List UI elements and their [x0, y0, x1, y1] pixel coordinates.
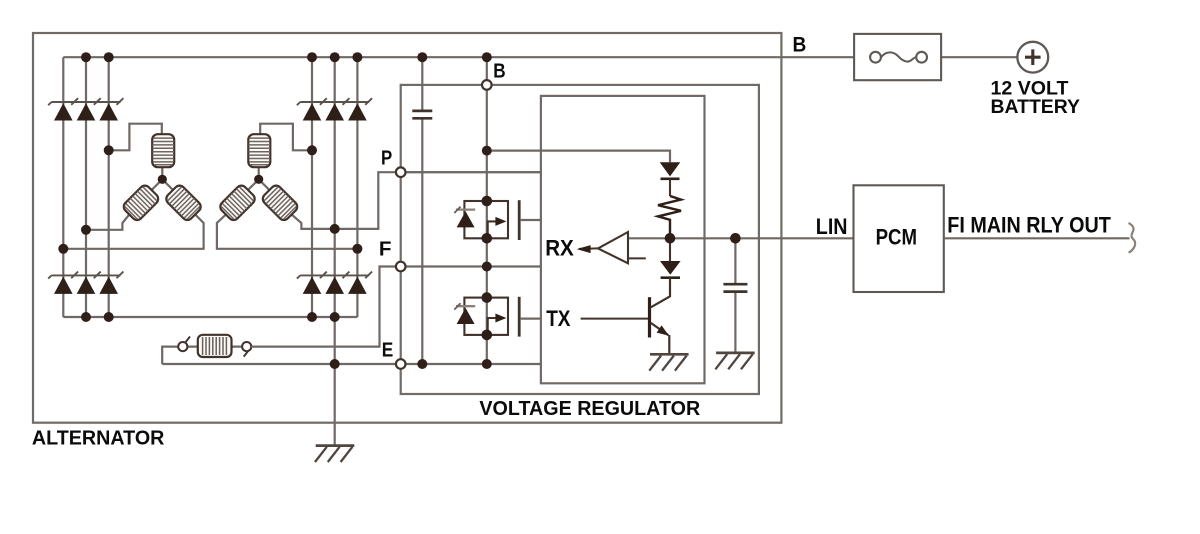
capacitor C2	[723, 284, 747, 291]
RX arrowhead	[577, 245, 591, 253]
wire: P line into IC	[401, 171, 541, 173]
RX buffer reference stub	[628, 257, 646, 259]
wire: field to F terminal	[251, 267, 541, 347]
svg-text:B: B	[493, 60, 505, 82]
node: B tap	[482, 146, 492, 156]
wire: stator Y2 right coil to P terminal	[292, 172, 541, 229]
fuse box	[854, 34, 941, 80]
node: C1 branch / B+ bus	[417, 52, 427, 62]
rotor field coil	[198, 335, 232, 357]
battery symbol	[1017, 42, 1048, 73]
node: Y1 neutral	[158, 175, 167, 184]
RX buffer triangle	[598, 232, 628, 263]
wire: E ground line	[162, 363, 541, 365]
resistor R1	[658, 196, 681, 238]
stator coil Y1 right	[164, 183, 203, 222]
node: Y2 top coil tap	[307, 145, 317, 155]
wire: phase 2 vertical	[85, 57, 87, 317]
diode D7 cathode bar	[661, 178, 680, 181]
wire: D7 to resistor	[669, 179, 671, 196]
wire: B vertical through regulator	[486, 57, 488, 364]
diode D7 top of divider	[660, 162, 681, 176]
ground: alternator case	[315, 446, 354, 462]
wire: fuse to battery	[941, 56, 1018, 58]
PCM box	[854, 185, 944, 292]
svg-text:VOLTAGE REGULATOR: VOLTAGE REGULATOR	[479, 398, 700, 420]
node: Y1 top coil tap	[104, 145, 114, 155]
wire: phase 4 vertical	[311, 57, 313, 317]
transistor Q3 emitter	[651, 323, 670, 354]
svg-text:ALTERNATOR: ALTERNATOR	[32, 428, 165, 450]
svg-text:BATTERY: BATTERY	[991, 97, 1081, 118]
node: Y1 left coil tap	[81, 225, 91, 235]
stator coil Y2 left	[218, 183, 257, 222]
wire: internal cap branch	[421, 57, 423, 364]
node: phase 5 / P line	[330, 224, 340, 234]
MOSFET Q2 low side	[454, 297, 519, 337]
wire: top B+ bus	[63, 56, 854, 58]
rectifier diodes lower left	[48, 272, 123, 294]
wire: slip ring link	[187, 346, 242, 348]
fuse terminal left	[870, 52, 881, 63]
diode D8 cathode bar	[661, 276, 680, 279]
alternator outer box	[33, 33, 781, 423]
wire: RX output	[579, 247, 598, 250]
wire: TX to transistor base	[581, 318, 650, 320]
node: phase 4 / ground bus	[307, 312, 317, 322]
svg-text:B: B	[793, 33, 807, 56]
node: phase 3 / B+ bus	[104, 52, 114, 62]
wire: FI MAIN RLY OUT	[944, 237, 1130, 239]
slip ring left	[178, 342, 187, 351]
stator coil Y2 top	[248, 134, 270, 167]
rectifier diodes upper right	[297, 98, 372, 120]
fuse element	[881, 52, 916, 61]
wire: rotor field loop left end	[162, 347, 189, 364]
wire: Q2 gate	[520, 318, 541, 320]
wire: stator Y1 top coil to phase 3	[109, 124, 162, 151]
terminal B	[482, 80, 492, 90]
wire: stator Y2 neutral link	[247, 167, 270, 191]
node: Y2 neutral	[254, 175, 263, 184]
terminal F	[396, 262, 406, 272]
terminal P	[396, 167, 406, 177]
wire: stator Y1 right coil to phase 1	[63, 215, 203, 249]
rectifier diodes lower right	[297, 272, 372, 294]
brush tick left	[185, 337, 190, 343]
node: phase 6 / B+ bus	[352, 52, 362, 62]
svg-text:LIN: LIN	[816, 214, 848, 239]
node: ground lead / E line	[330, 359, 340, 369]
node: Q2 source bottom	[482, 330, 493, 341]
node: F line / MOSFET midpoint	[482, 262, 492, 272]
node: phase 3 / ground bus	[104, 312, 114, 322]
transistor Q3 collector	[651, 278, 670, 308]
wire: LIN node horizontal	[628, 237, 854, 239]
regulator IC inner box	[541, 96, 705, 383]
wire: stator Y1 neutral link	[151, 167, 174, 191]
wire: Q1 gate	[520, 219, 541, 221]
wire: LIN cap branch	[734, 238, 736, 353]
node: LIN / C2 branch	[730, 233, 741, 244]
voltage regulator box	[401, 85, 759, 394]
transistor Q3 base bar	[648, 297, 651, 337]
wire: stator Y1 left coil to phase 2	[86, 215, 129, 230]
node: C1 branch / E line	[417, 359, 427, 369]
battery plus sign	[1025, 49, 1041, 65]
slip ring right	[242, 342, 251, 351]
node: phase 5 / B+ bus	[330, 52, 340, 62]
node: Q2 source / E line	[482, 359, 492, 369]
brush tick right	[244, 351, 249, 357]
stator coil Y1 top	[152, 134, 174, 167]
node: Q1 source	[482, 233, 493, 244]
node: phase 4 / B+ bus	[307, 52, 317, 62]
ground: C2	[715, 353, 754, 369]
node: phase 2 / ground bus	[81, 312, 91, 322]
wire: phase 1 vertical	[62, 57, 64, 317]
node: phase 5 / ground bus	[330, 312, 340, 322]
svg-text:E: E	[382, 340, 394, 362]
node: phase 2 / B+ bus	[81, 52, 91, 62]
wire: stator Y2 left coil to phase 6	[217, 215, 358, 249]
wire: phase 5 vertical to ground	[334, 57, 336, 445]
node: B line / B+ bus	[482, 52, 492, 62]
wire: phase 3 vertical	[108, 57, 110, 317]
diode D8	[660, 261, 681, 275]
node: Y1 right coil tap	[58, 244, 68, 254]
rectifier diodes upper left	[48, 98, 123, 120]
wire: rectifier ground bus	[63, 316, 357, 318]
svg-text:P: P	[381, 148, 392, 170]
node: Y2 left coil tap	[352, 244, 362, 254]
svg-text:RX: RX	[545, 235, 574, 260]
wire: stator Y2 top coil to phase 4	[260, 124, 312, 151]
MOSFET Q1 high side	[454, 200, 519, 240]
connector continuation squiggle	[1129, 223, 1136, 253]
Q3 emitter arrowhead	[657, 325, 669, 335]
stator coil Y1 left	[122, 183, 161, 222]
wire: LIN node to D8	[669, 238, 671, 261]
svg-text:PCM: PCM	[876, 225, 917, 250]
node: LIN divider junction	[665, 233, 676, 244]
ground: transistor emitter	[649, 354, 688, 370]
terminal E	[396, 359, 406, 369]
node: Q2 drain	[482, 292, 493, 303]
svg-text:TX: TX	[546, 306, 571, 331]
stator coil Y2 right	[261, 183, 300, 222]
capacitor C1	[412, 111, 432, 118]
svg-text:FI MAIN RLY OUT: FI MAIN RLY OUT	[947, 213, 1111, 238]
wire: B tap to divider	[487, 151, 670, 163]
node: Q1 drain	[482, 196, 493, 207]
fuse terminal right	[916, 52, 927, 63]
svg-text:F: F	[379, 238, 392, 260]
wire: phase 6 vertical	[356, 57, 358, 317]
